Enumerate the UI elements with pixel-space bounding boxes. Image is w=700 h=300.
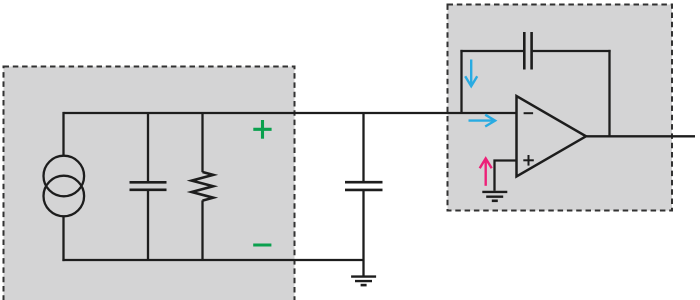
source network region box [4,67,295,300]
wire: resistor R1 branch lower segment [201,200,203,260]
blue arrow: input current (rightward) [469,115,496,127]
wire: filter capacitor C2 branch upper segment [362,113,364,181]
wire: top node from source to op-amp inverting input [64,112,517,114]
blue arrow: feedback current (downward) [465,60,477,87]
pink arrow: bias current (upward) [480,158,492,185]
wire: non-inverting input to ground L-segment [495,161,517,191]
ground (bottom rail) [351,277,376,286]
label: green minus terminal [253,243,271,246]
wire: capacitor C1 branch lower segment [147,191,149,260]
wire: feedback top horizontal from C3 right plate [533,50,611,52]
amplifier region box [448,5,673,211]
wire: capacitor C1 branch upper segment [147,113,149,181]
pin label: non-inverting input plus [523,155,534,166]
ground (op-amp non-inverting input) [482,192,507,201]
wire: feedback vertical down to output node [608,50,610,136]
capacitor C1 [130,182,167,190]
pin label: inverting input minus [524,112,534,114]
resistor R1 [192,172,214,201]
wire: current source branch lower segment [62,216,64,261]
current source I1 [44,156,85,217]
wire: current source branch upper segment [62,112,64,156]
wire: bottom return rail [62,259,363,261]
wire: capacitor C2 to ground segment [362,191,364,277]
op-amp U1 [517,96,587,177]
wire: resistor R1 branch upper segment [201,113,203,172]
wire: feedback top horizontal to C3 left plate [460,50,523,52]
wire: feedback tap vertical from input node [460,50,462,113]
label: green plus terminal [253,120,271,139]
capacitor C3 (feedback) [524,32,531,70]
capacitor C2 [345,182,383,190]
wire: op-amp output [586,135,695,137]
